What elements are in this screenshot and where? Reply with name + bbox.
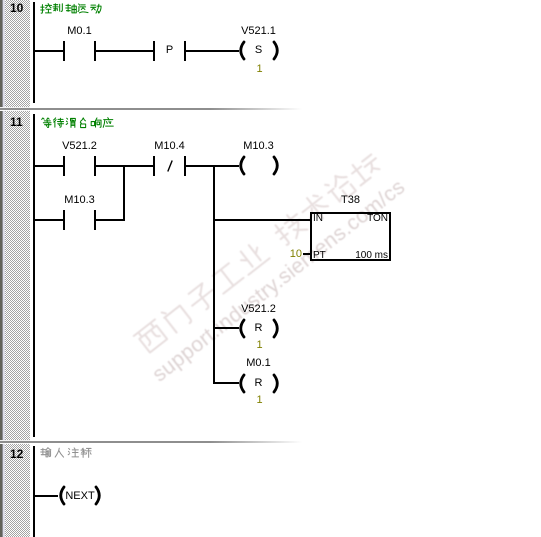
- contact M10.4 label: [129, 141, 210, 152]
- reset coil V521.2 operand count 1: [219, 340, 300, 351]
- set coil V521.1 label: [218, 26, 299, 37]
- contact M0.1 label: [39, 26, 120, 37]
- contact V521.2 label: [39, 141, 120, 152]
- reset coil M0.1 label: [218, 358, 299, 369]
- wire rail to parallel contact M10.3: [35, 219, 63, 221]
- reset coil V521.2 label: [218, 304, 299, 315]
- wire contact M0.1 to P contact: [96, 50, 153, 52]
- wire rail to contact M0.1: [35, 50, 63, 52]
- set coil operand count 1: [219, 64, 300, 75]
- separator between network 11 and 12: [0, 440, 30, 441]
- left pane edge strip: [0, 0, 2, 537]
- wire V521.2 to NC contact M10.4: [96, 165, 153, 167]
- set coil V521.1 (S): [235, 40, 281, 61]
- timer T38 label: [310, 195, 391, 206]
- wire rail to contact V521.2: [35, 165, 63, 167]
- reset coil M0.1 operand count 1: [219, 395, 300, 406]
- network number 10: [10, 2, 23, 14]
- power rail network 11: [33, 114, 35, 437]
- dithered network-number margin column: [5, 0, 30, 537]
- positive-edge contact P: [153, 41, 155, 61]
- parallel branch vertical wire: [123, 165, 125, 221]
- power rail network 12: [33, 446, 35, 537]
- contact M0.1: [63, 41, 65, 61]
- output coil M10.3 label: [218, 141, 299, 152]
- PT preset constant 10: [262, 249, 302, 260]
- NC contact M10.4: [153, 156, 155, 176]
- network 12 placeholder title (gray): [40, 447, 94, 465]
- network number 11: [10, 116, 23, 128]
- parallel contact M10.3: [63, 210, 65, 230]
- watermark line 2: forum URL, rotated: [149, 176, 409, 386]
- parallel contact M10.3 label: [39, 195, 120, 206]
- network 11 title (green): [40, 117, 114, 135]
- reset coil M0.1 (R): [235, 373, 281, 394]
- wire P contact to set coil: [186, 50, 239, 52]
- contact V521.2: [63, 156, 65, 176]
- timer box T38 TON: [310, 212, 391, 261]
- power rail network 10: [33, 2, 35, 103]
- NEXT coil parentheses: [54, 485, 104, 506]
- wire trunk to timer IN: [215, 219, 310, 221]
- NEXT coil text: [64, 491, 96, 502]
- wire M10.3 to branch vertical: [96, 219, 125, 221]
- trunk vertical wire to outputs: [213, 165, 215, 384]
- wire trunk to reset coil M0.1: [215, 382, 239, 384]
- output coil M10.3: [235, 155, 281, 176]
- wire stub 10 to PT: [303, 253, 310, 255]
- wire rail to NEXT coil: [35, 495, 58, 497]
- wire trunk to reset coil V521.2: [215, 327, 239, 329]
- watermark line 1: Chinese forum name, rotated: [129, 145, 409, 382]
- wire M10.4 to output coil M10.3: [186, 165, 239, 167]
- network 10 title (green): [40, 3, 102, 21]
- reset coil V521.2 (R): [235, 318, 281, 339]
- network number 12: [10, 448, 23, 460]
- separator between network 10 and 11: [0, 107, 30, 108]
